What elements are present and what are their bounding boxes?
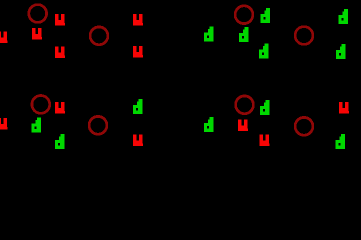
quark u1 (55, 14, 65, 26)
ring R1 (29, 5, 47, 23)
ring R2 (90, 27, 108, 45)
quark d7 (32, 118, 42, 133)
quark u2 (0, 32, 8, 44)
quark d10 (204, 117, 214, 132)
quark u12 (339, 102, 349, 114)
quark u10 (238, 120, 248, 132)
quark d11 (260, 100, 270, 115)
quark d8 (55, 134, 65, 149)
quark u6 (133, 46, 143, 58)
ring R7 (236, 96, 254, 114)
quark u8 (0, 118, 8, 130)
quark u11 (260, 135, 270, 147)
quark d12 (336, 134, 346, 149)
quark u3 (32, 28, 42, 40)
quark d6 (336, 44, 346, 59)
ring R8 (295, 117, 313, 135)
quark d5 (339, 9, 349, 24)
quark u4 (55, 47, 65, 59)
quark u5 (133, 14, 143, 26)
ring R3 (235, 6, 253, 24)
ring R6 (89, 116, 107, 134)
quark u9 (133, 135, 143, 147)
quark d4 (259, 44, 269, 59)
ring R5 (32, 96, 50, 114)
quark d1 (204, 27, 214, 42)
ring R4 (295, 27, 313, 45)
quark d9 (133, 99, 143, 114)
quark d2 (239, 27, 249, 42)
quark u7 (55, 102, 65, 114)
quark d3 (261, 8, 271, 23)
